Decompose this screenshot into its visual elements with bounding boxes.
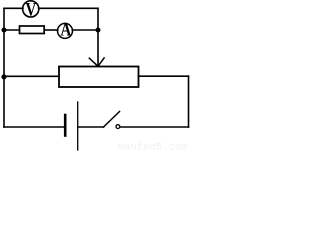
rheostat wiper arrow — [89, 58, 104, 66]
wire — [44, 29, 58, 31]
resistor — [20, 26, 45, 34]
wire — [39, 7, 98, 9]
svg-text:V: V — [26, 0, 37, 20]
rheostat — [59, 67, 139, 88]
switch — [104, 112, 120, 129]
ammeter — [58, 19, 73, 40]
node junction — [96, 28, 101, 33]
wire — [78, 126, 103, 128]
wire — [188, 76, 190, 127]
wire — [4, 75, 59, 77]
node junction — [2, 28, 7, 33]
voltmeter — [23, 0, 39, 20]
wire — [3, 8, 5, 127]
battery — [65, 102, 78, 150]
wire — [139, 75, 189, 77]
svg-text:manfen5.com: manfen5.com — [118, 142, 187, 153]
wire — [97, 8, 99, 65]
wire — [4, 7, 23, 9]
wire — [4, 126, 64, 128]
node junction — [1, 74, 6, 79]
wire — [4, 29, 20, 31]
svg-text:A: A — [61, 19, 72, 40]
wire — [72, 29, 98, 31]
wire — [121, 126, 189, 128]
